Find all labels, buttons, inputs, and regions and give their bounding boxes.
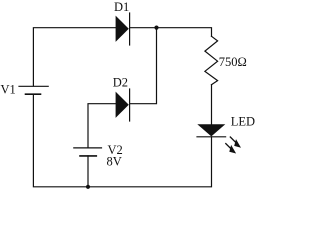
svg-text:LED: LED xyxy=(231,115,255,129)
svg-text:D2: D2 xyxy=(113,76,128,90)
svg-text:750Ω: 750Ω xyxy=(219,55,247,69)
svg-text:D1: D1 xyxy=(114,0,129,14)
svg-text:V1: V1 xyxy=(1,82,16,96)
svg-text:8V: 8V xyxy=(107,155,122,169)
